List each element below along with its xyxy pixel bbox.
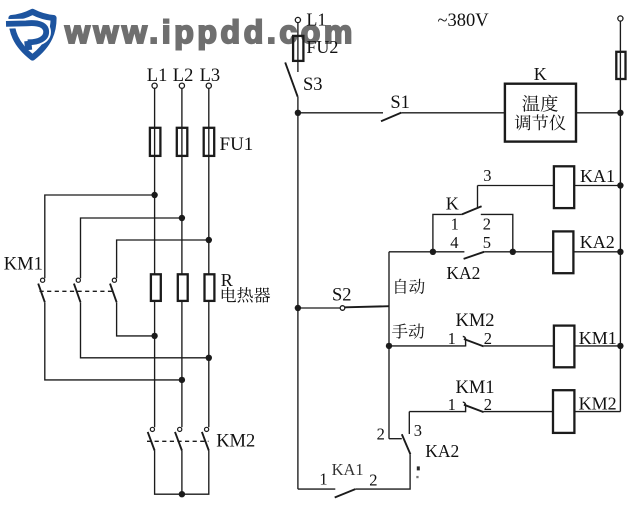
wire L1 vertical	[154, 88, 156, 274]
node left rail S2	[295, 305, 301, 311]
node star point	[179, 491, 185, 497]
svg-text:KA1: KA1	[580, 166, 615, 186]
watermark logo P	[6, 23, 46, 50]
KM1 main contact 3 arm	[110, 284, 117, 303]
contactor coil KM1	[554, 326, 575, 368]
wire left rail middle	[297, 113, 299, 308]
svg-text:S1: S1	[390, 93, 410, 113]
wire L2 lower vertical	[181, 301, 183, 427]
KM1 main contact 3 pivot circle	[112, 278, 116, 282]
KM1 main contact 2 pivot circle	[76, 278, 80, 282]
node terminal 2/5 branch	[510, 249, 516, 255]
svg-text:2: 2	[484, 329, 492, 348]
wire 5 to KA2 coil	[484, 251, 553, 253]
terminal L1	[152, 83, 157, 88]
svg-text:KM1: KM1	[579, 328, 617, 348]
svg-text:1: 1	[319, 470, 327, 489]
node L3 delta junction	[206, 355, 212, 361]
wire S2 left	[298, 307, 340, 309]
node left rail / S1	[295, 110, 301, 116]
resistor R phase 1	[151, 274, 161, 301]
fuse FU1 phase L1	[150, 128, 161, 156]
contactor coil KM2	[553, 390, 574, 433]
stray mark 2	[416, 476, 418, 478]
wire L1 lower vertical	[154, 301, 156, 427]
svg-text:5: 5	[483, 233, 491, 252]
KM1 NC contact bar	[463, 402, 466, 412]
wire L3 vertical	[208, 88, 210, 274]
watermark logo shield	[11, 12, 53, 58]
wire left rail top	[297, 23, 299, 72]
KA2 contact (4-5) arm	[464, 252, 485, 259]
wire KM2 row left	[409, 411, 465, 413]
wire changeover common down	[355, 454, 410, 489]
svg-text:1: 1	[451, 215, 459, 234]
KA2 changeover arm	[402, 434, 411, 454]
KM2 main contact 2 arm	[175, 432, 182, 451]
svg-text:3: 3	[483, 166, 491, 185]
svg-text:2: 2	[483, 215, 491, 234]
wire 3 to KA1 coil	[478, 185, 554, 187]
switch S3 arm	[285, 62, 298, 96]
node right rail KA2	[617, 249, 623, 255]
terminal L1 (control)	[295, 17, 300, 22]
node right rail / controller	[617, 110, 623, 116]
KM2 contacts linkage dashed line	[147, 440, 209, 442]
wire KM1 contact2 to L3 lower node	[81, 302, 209, 358]
switch S1 arm	[381, 113, 401, 122]
svg-text:2: 2	[369, 470, 377, 489]
KM1 contacts linkage dashed line	[40, 290, 115, 292]
node L2 delta junction	[179, 377, 185, 383]
label label 电热器 (electric heater)	[222, 287, 270, 303]
KM2 main contact 2 pivot circle	[178, 427, 182, 431]
node manual branch	[386, 343, 392, 349]
wire KM2 contact to KM1 coil	[484, 345, 554, 347]
terminal right rail top	[618, 16, 623, 21]
label 调节仪 (regulator)	[515, 114, 566, 130]
svg-text:S3: S3	[303, 75, 323, 95]
node right rail KA1	[617, 182, 623, 188]
node L3-KM1 junction	[206, 237, 212, 243]
fuse FU1 phase L3	[204, 128, 215, 156]
fuse FU2	[293, 36, 303, 61]
label 自动 (auto)	[395, 279, 424, 294]
node L1-KM1 junction	[151, 192, 157, 198]
wire L2 vertical	[181, 88, 183, 274]
svg-text:KM2: KM2	[456, 311, 495, 331]
svg-text:KA2: KA2	[580, 232, 615, 252]
wire KM2 coil to right rail	[574, 411, 620, 413]
node L2-KM1 junction	[179, 215, 185, 221]
switch S2 pivot circle	[340, 306, 345, 311]
resistor R phase 3	[205, 274, 215, 301]
wire bottom row left	[298, 488, 335, 490]
KM1 NC contact arm	[464, 405, 484, 412]
svg-text:3: 3	[414, 421, 422, 440]
wire controller to right rail	[576, 112, 620, 114]
wire L3 to KM1 contact 3	[117, 240, 209, 278]
fuse FU1 phase L2	[177, 128, 188, 156]
KA1 contact arm	[335, 489, 356, 497]
svg-text:KA2: KA2	[425, 441, 459, 461]
relay coil KA2	[553, 231, 573, 273]
wire left rail lower	[297, 308, 299, 489]
fuse (right rail)	[616, 52, 625, 79]
svg-text:~380V: ~380V	[438, 11, 490, 31]
terminal L2	[179, 83, 184, 88]
wire auto row left	[389, 251, 464, 253]
wire manual row left	[389, 345, 466, 347]
svg-text:FU2: FU2	[306, 37, 338, 57]
KM2 main contact 1 arm	[148, 432, 155, 451]
wire KM1 contact to KM2 coil	[484, 411, 553, 413]
node terminal 1 branch	[430, 249, 436, 255]
svg-text:K: K	[446, 194, 459, 214]
wire right rail	[619, 113, 621, 412]
wire terminal 3 vertical	[477, 186, 479, 208]
wire star point left	[155, 451, 209, 495]
wire S3 to node	[297, 97, 299, 113]
wire L2 to KM1 contact 2	[81, 218, 182, 278]
wire KA1 coil to right rail	[574, 185, 620, 187]
watermark logo P halo	[6, 23, 46, 42]
svg-text:KM1: KM1	[4, 254, 43, 274]
label 手动 (manual)	[392, 324, 424, 339]
wire KM1 contact3 to L1 lower node	[117, 302, 155, 336]
svg-text:4: 4	[450, 233, 458, 252]
KM2 main contact 1 pivot circle	[150, 427, 154, 431]
wire S1 left segment	[298, 112, 383, 114]
switch S2 arm (closed)	[345, 306, 389, 307]
svg-text:S2: S2	[332, 286, 352, 306]
KM2 main contact 3 arm	[202, 432, 209, 451]
terminal L3	[206, 83, 211, 88]
wire right rail top	[619, 21, 621, 113]
svg-text:KM2: KM2	[579, 394, 617, 414]
wire terminal 3 vertical	[408, 412, 410, 434]
KM1 main contact 2 arm	[74, 284, 81, 303]
svg-text:1: 1	[448, 329, 456, 348]
wire K contact terminal 1 segment	[433, 214, 462, 251]
node right rail KM1	[617, 343, 623, 349]
stray mark 1	[417, 466, 420, 470]
svg-text:FU1: FU1	[220, 134, 254, 155]
KM1 main contact 1 pivot circle	[41, 278, 45, 282]
svg-text:KA2: KA2	[446, 263, 480, 283]
wire K contact terminal 2 segment	[481, 214, 513, 251]
K contact arm	[462, 206, 482, 214]
label 温度 (temperature)	[522, 95, 557, 112]
wire star point middle	[181, 451, 183, 495]
wire auto/manual vertical	[388, 252, 390, 439]
KM1 main contact 1 arm	[38, 284, 45, 303]
svg-text:L1: L1	[147, 66, 168, 86]
svg-text:L1: L1	[306, 10, 326, 30]
svg-text:R: R	[221, 270, 233, 290]
KM2 NC contact bar	[463, 336, 466, 346]
wire KM1 coil to right rail	[574, 345, 620, 347]
wire L1 to KM1 contact 1	[45, 195, 155, 278]
wire L3 lower vertical	[208, 301, 210, 427]
wire KA2 coil to right rail	[573, 251, 620, 253]
relay coil KA1	[554, 166, 574, 208]
KM2 main contact 3 pivot circle	[205, 427, 209, 431]
svg-text:KA1: KA1	[332, 460, 364, 479]
svg-text:2: 2	[377, 425, 385, 444]
wire terminal 2 elbow	[389, 438, 402, 440]
wire KM1 contact1 to L2 lower node	[45, 302, 182, 380]
node L1 delta junction	[151, 333, 157, 339]
svg-text:KM2: KM2	[216, 431, 255, 451]
svg-text:K: K	[534, 64, 547, 84]
resistor R phase 2	[178, 274, 188, 301]
wire S1 to temperature controller	[401, 112, 505, 114]
temperature controller K box	[505, 84, 576, 142]
KM2 NC contact arm	[464, 339, 484, 346]
